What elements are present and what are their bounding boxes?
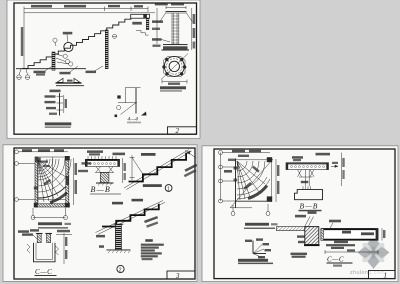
- svg-text:C—C: C—C: [327, 256, 344, 264]
- P3 plan view: [220, 153, 222, 202]
- flange circle detail: [164, 57, 185, 77]
- vertical dim line mid: [156, 8, 158, 44]
- beam: [321, 229, 378, 241]
- P3 small fan detail: [252, 241, 254, 254]
- title: [245, 223, 269, 226]
- P2 C-C detail: [18, 230, 29, 233]
- title: [45, 122, 72, 125]
- watermark logo: [358, 236, 390, 269]
- detail circle on stair: [64, 42, 73, 51]
- top dimension line: [24, 8, 148, 10]
- P2 plan view: [15, 150, 19, 154]
- right dim chain: [275, 159, 277, 202]
- break zigzags: [27, 244, 30, 253]
- 4-4 detail: [135, 88, 137, 114]
- frame P3: [214, 149, 395, 279]
- title: [38, 222, 62, 225]
- fan: [237, 161, 247, 171]
- landing slab: [131, 14, 150, 18]
- below texts: [291, 253, 308, 255]
- shaft: [171, 13, 173, 45]
- ground line: [16, 68, 86, 70]
- title box P3: [369, 271, 396, 279]
- post: [115, 224, 121, 249]
- left slab hatched: [276, 227, 305, 231]
- column detail top-right: [155, 3, 168, 6]
- P2 stair detail 2: [96, 201, 164, 233]
- P2 stair detail 1: [124, 150, 189, 189]
- svg-text:B—B: B—B: [91, 185, 112, 194]
- ground: [106, 249, 130, 251]
- under-beam texts: [334, 241, 348, 243]
- fan arcs centered near (38,159): [38, 159, 47, 168]
- bottom dim: [325, 251, 378, 253]
- dims below: [162, 81, 187, 83]
- svg-text:C—C: C—C: [35, 268, 52, 276]
- walls: [35, 157, 38, 207]
- svg-text:1: 1: [384, 271, 388, 279]
- bottom-left channel detail: [59, 93, 61, 116]
- bottom dim: [33, 217, 66, 219]
- right dim: [381, 228, 383, 241]
- frame P1: [14, 3, 197, 134]
- svg-text:2: 2: [176, 127, 180, 135]
- anchor diagonals: [160, 13, 167, 23]
- P2 B-B section: [87, 150, 103, 153]
- dark arc band: [50, 193, 67, 203]
- dim text smudges top: [31, 5, 52, 8]
- title: [160, 86, 186, 89]
- block: [305, 227, 319, 245]
- small circled markers: [53, 38, 57, 42]
- plan box: [235, 159, 237, 209]
- base circles with cross: [17, 75, 22, 80]
- right dim chain: [73, 158, 75, 205]
- right dim: [191, 8, 193, 50]
- base plates: [163, 44, 188, 46]
- radial lines: [37, 160, 39, 203]
- stair steps: [22, 16, 131, 68]
- hatched strip under landing: [146, 18, 149, 30]
- title box P2: [167, 271, 195, 279]
- labels under ground: [34, 71, 46, 74]
- beam outline: [34, 243, 56, 262]
- P3 C-C section: [295, 215, 306, 218]
- z-step under landing: [136, 31, 149, 36]
- post 1: [52, 52, 55, 70]
- svg-text:2: 2: [119, 267, 122, 273]
- left small texts: [297, 235, 305, 237]
- title box P1: [168, 127, 197, 134]
- paper sheet P2: [3, 145, 197, 282]
- right dims: [63, 233, 65, 264]
- svg-text:3: 3: [175, 272, 180, 280]
- frame P2: [14, 148, 195, 279]
- bottom circles: [231, 212, 235, 216]
- floor level line: [24, 12, 155, 14]
- svg-text:4—4: 4—4: [128, 116, 139, 123]
- left vertical dimension line: [23, 12, 25, 69]
- svg-text:B—B: B—B: [300, 201, 319, 210]
- left texts: [152, 20, 163, 23]
- P3 B-B section: [292, 156, 303, 159]
- paper sheet P1: [7, 0, 200, 139]
- svg-text:1: 1: [167, 186, 170, 192]
- A-A like weld detail: [56, 82, 82, 84]
- post 2: [105, 30, 108, 69]
- paper sheet P3: [202, 146, 398, 282]
- notes list: [145, 239, 153, 242]
